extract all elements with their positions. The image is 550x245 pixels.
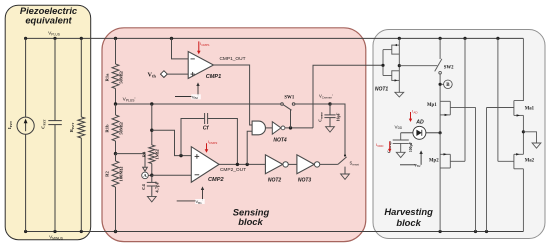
svg-text:equivalent: equivalent — [25, 15, 72, 26]
transistor Mp1 — [440, 101, 475, 133]
wire NOT2 to NOT3 — [288, 163, 297, 165]
wire CMP2 inverting input — [152, 174, 192, 176]
node Cf left junction — [179, 154, 182, 157]
ground below S_reset — [341, 174, 350, 179]
svg-text:50MΩ: 50MΩ — [118, 122, 123, 135]
title Sensing block — [233, 207, 270, 228]
svg-text:CMP1_OUT: CMP1_OUT — [219, 56, 245, 62]
node Ma1-Ma2 midpoint — [522, 130, 525, 133]
svg-text:R4: R4 — [142, 151, 147, 157]
node V_PLUS' junctions — [114, 102, 332, 105]
node NOT4 output junction — [289, 126, 292, 129]
wire CMP2 noninverting input path — [152, 130, 192, 155]
label R2 100MOhm — [105, 166, 124, 181]
svg-text:R1b: R1b — [105, 124, 110, 133]
wire V_PLUS' to R4 — [151, 104, 153, 145]
svg-text:IAD: IAD — [412, 109, 418, 115]
inverter NOT3 — [297, 155, 320, 174]
svg-text:Sreset: Sreset — [350, 161, 360, 167]
ground below C4 — [147, 196, 156, 202]
wire NOT4 to NOT1 input — [313, 65, 383, 128]
resistor R4 — [149, 145, 155, 175]
wire NOT4 output — [285, 127, 313, 129]
op-amp CMP2 — [191, 147, 219, 183]
title Piezoelectric equivalent — [20, 5, 78, 25]
ground at Ma1-Ma2 midpoint — [532, 143, 541, 148]
bias arrow V_B2 of AD — [400, 150, 423, 168]
current arrow I_CMP1 — [197, 41, 210, 54]
svg-text:NOT2: NOT2 — [268, 178, 282, 184]
node NOT1 input — [381, 64, 384, 67]
title Harvesting block — [384, 206, 433, 228]
node V_PLUS rail junctions — [24, 37, 500, 40]
capacitor C_PZT — [48, 38, 62, 231]
svg-text:50MΩ: 50MΩ — [118, 71, 123, 84]
svg-text:100MΩ: 100MΩ — [118, 166, 123, 181]
sensing block box — [102, 28, 366, 242]
svg-text:AD: AD — [415, 120, 424, 126]
wire Ma1 gate vertical — [486, 108, 488, 232]
node A probe — [142, 172, 152, 179]
label R4 1MOhm — [142, 149, 160, 160]
ground below C_storage — [396, 152, 405, 157]
bias arrow V_B1 — [177, 186, 205, 204]
svg-text:NOT1: NOT1 — [375, 87, 389, 93]
resistor R2 — [112, 154, 119, 232]
inverter NOT2 — [265, 155, 288, 174]
wire NOT1 output to SW2 — [399, 65, 437, 67]
harvesting block box — [373, 30, 545, 239]
ground below C_sense — [326, 127, 335, 132]
svg-text:R1a: R1a — [105, 73, 110, 82]
node B probe — [439, 80, 453, 89]
current source I_PZT — [17, 38, 34, 231]
svg-text:4.7pF: 4.7pF — [155, 181, 160, 192]
svg-text:VB1: VB1 — [196, 199, 203, 205]
svg-text:VDD: VDD — [395, 124, 403, 130]
svg-text:Ma1: Ma1 — [525, 106, 535, 111]
transistor Mp2 — [440, 133, 465, 232]
svg-text:1MΩ: 1MΩ — [154, 149, 159, 160]
capacitor C_sense — [324, 104, 335, 127]
transistor Ma2 — [498, 153, 524, 231]
svg-text:C4: C4 — [141, 183, 146, 189]
svg-text:Vth: Vth — [148, 71, 157, 78]
svg-text:Mp1: Mp1 — [427, 103, 437, 108]
bias arrow V_B2 of CMP1 — [175, 82, 201, 100]
current arrow I_VDD — [376, 141, 391, 152]
svg-text:VB2: VB2 — [192, 94, 199, 100]
svg-text:VCsense': VCsense' — [319, 94, 333, 100]
switch SW2 — [435, 38, 442, 101]
node NOT1 output — [398, 64, 401, 67]
svg-text:CMP1: CMP1 — [206, 74, 222, 80]
op-amp CMP1 — [188, 52, 213, 79]
resistor R1a — [112, 38, 119, 104]
transistor pair NOT1 (CMOS inverter) — [383, 38, 399, 92]
label C_sense 16pF — [318, 112, 341, 122]
wire CMP2_OUT branch to AND gate — [247, 131, 252, 164]
svg-text:100µF: 100µF — [409, 141, 413, 152]
node CMP2_OUT junctions — [236, 163, 249, 166]
svg-text:NOT3: NOT3 — [298, 178, 312, 184]
capacitor C_storage — [393, 133, 409, 153]
node AD junction — [439, 131, 442, 134]
wire AND to inverter — [266, 127, 273, 129]
svg-text:Ma2: Ma2 — [525, 158, 535, 163]
svg-text:SW2: SW2 — [444, 66, 454, 71]
svg-text:ICMP1: ICMP1 — [200, 41, 210, 47]
ground below NOT1 — [395, 92, 404, 97]
node V_MINUS rail junctions — [24, 230, 488, 233]
wire Mp2 gate from top rail — [464, 38, 466, 161]
node R1b R2 junction — [114, 152, 117, 155]
node R4 top junction — [150, 129, 153, 132]
node S_reset top terminal — [344, 154, 346, 156]
label C_storage 100uF — [387, 140, 413, 152]
svg-text:Harvesting: Harvesting — [384, 206, 433, 217]
AND gate of NOT4 — [252, 121, 265, 135]
piezoelectric equivalent block box — [5, 5, 91, 240]
wire midpoint to ground — [523, 132, 536, 143]
label R1a 50MOhm — [105, 71, 124, 84]
svg-text:16pF: 16pF — [335, 112, 340, 121]
capacitor Cf — [181, 113, 237, 164]
switch S_reset — [320, 157, 347, 174]
svg-text:IVDD: IVDD — [376, 142, 384, 148]
wire V_PLUS' rail — [116, 103, 346, 105]
node A junction dot — [150, 174, 153, 177]
wire V_MINUS bottom rail — [26, 231, 524, 233]
input terminal V_th diamond — [161, 71, 189, 78]
svg-text:NOT4: NOT4 — [273, 138, 287, 144]
capacitor C4 — [147, 175, 157, 196]
inverter NOT4 — [272, 122, 285, 134]
wire V_Csense to S_reset — [330, 104, 345, 155]
wire V_PLUS top rail — [26, 37, 524, 39]
svg-text:block: block — [396, 217, 421, 228]
svg-text:ICMP2: ICMP2 — [208, 139, 218, 145]
wire CMP1 output to AND gate — [214, 65, 253, 125]
wire CMP2 output — [219, 163, 265, 165]
wire SW1 control — [290, 110, 292, 128]
transistor Ma1 — [487, 38, 524, 154]
wire Ma2 gate from top rail — [497, 38, 499, 161]
svg-text:Mp2: Mp2 — [429, 159, 439, 164]
switch SW1 — [281, 103, 295, 111]
svg-text:SW1: SW1 — [284, 96, 294, 101]
current arrow I_AD — [409, 109, 419, 123]
resistor R1b — [112, 104, 119, 154]
wire R1b-R2 junction to node A arrow — [116, 154, 148, 172]
current arrow I_CMP2 — [205, 139, 218, 153]
svg-text:Csense: Csense — [318, 112, 324, 122]
svg-text:CMP2_OUT: CMP2_OUT — [220, 167, 246, 173]
svg-text:R2: R2 — [105, 170, 110, 176]
label C4 4.7pF — [141, 181, 160, 192]
label R1b 50MOhm — [105, 122, 124, 135]
resistor R_PZT — [78, 38, 85, 231]
svg-text:block: block — [238, 216, 263, 227]
svg-text:CMP2: CMP2 — [208, 177, 224, 183]
wire Mp1 gate vertical — [475, 107, 477, 231]
svg-text:VB2: VB2 — [414, 162, 421, 168]
active diode AD — [401, 126, 440, 139]
wire CMP1 top input from V_PLUS rail — [172, 38, 189, 59]
